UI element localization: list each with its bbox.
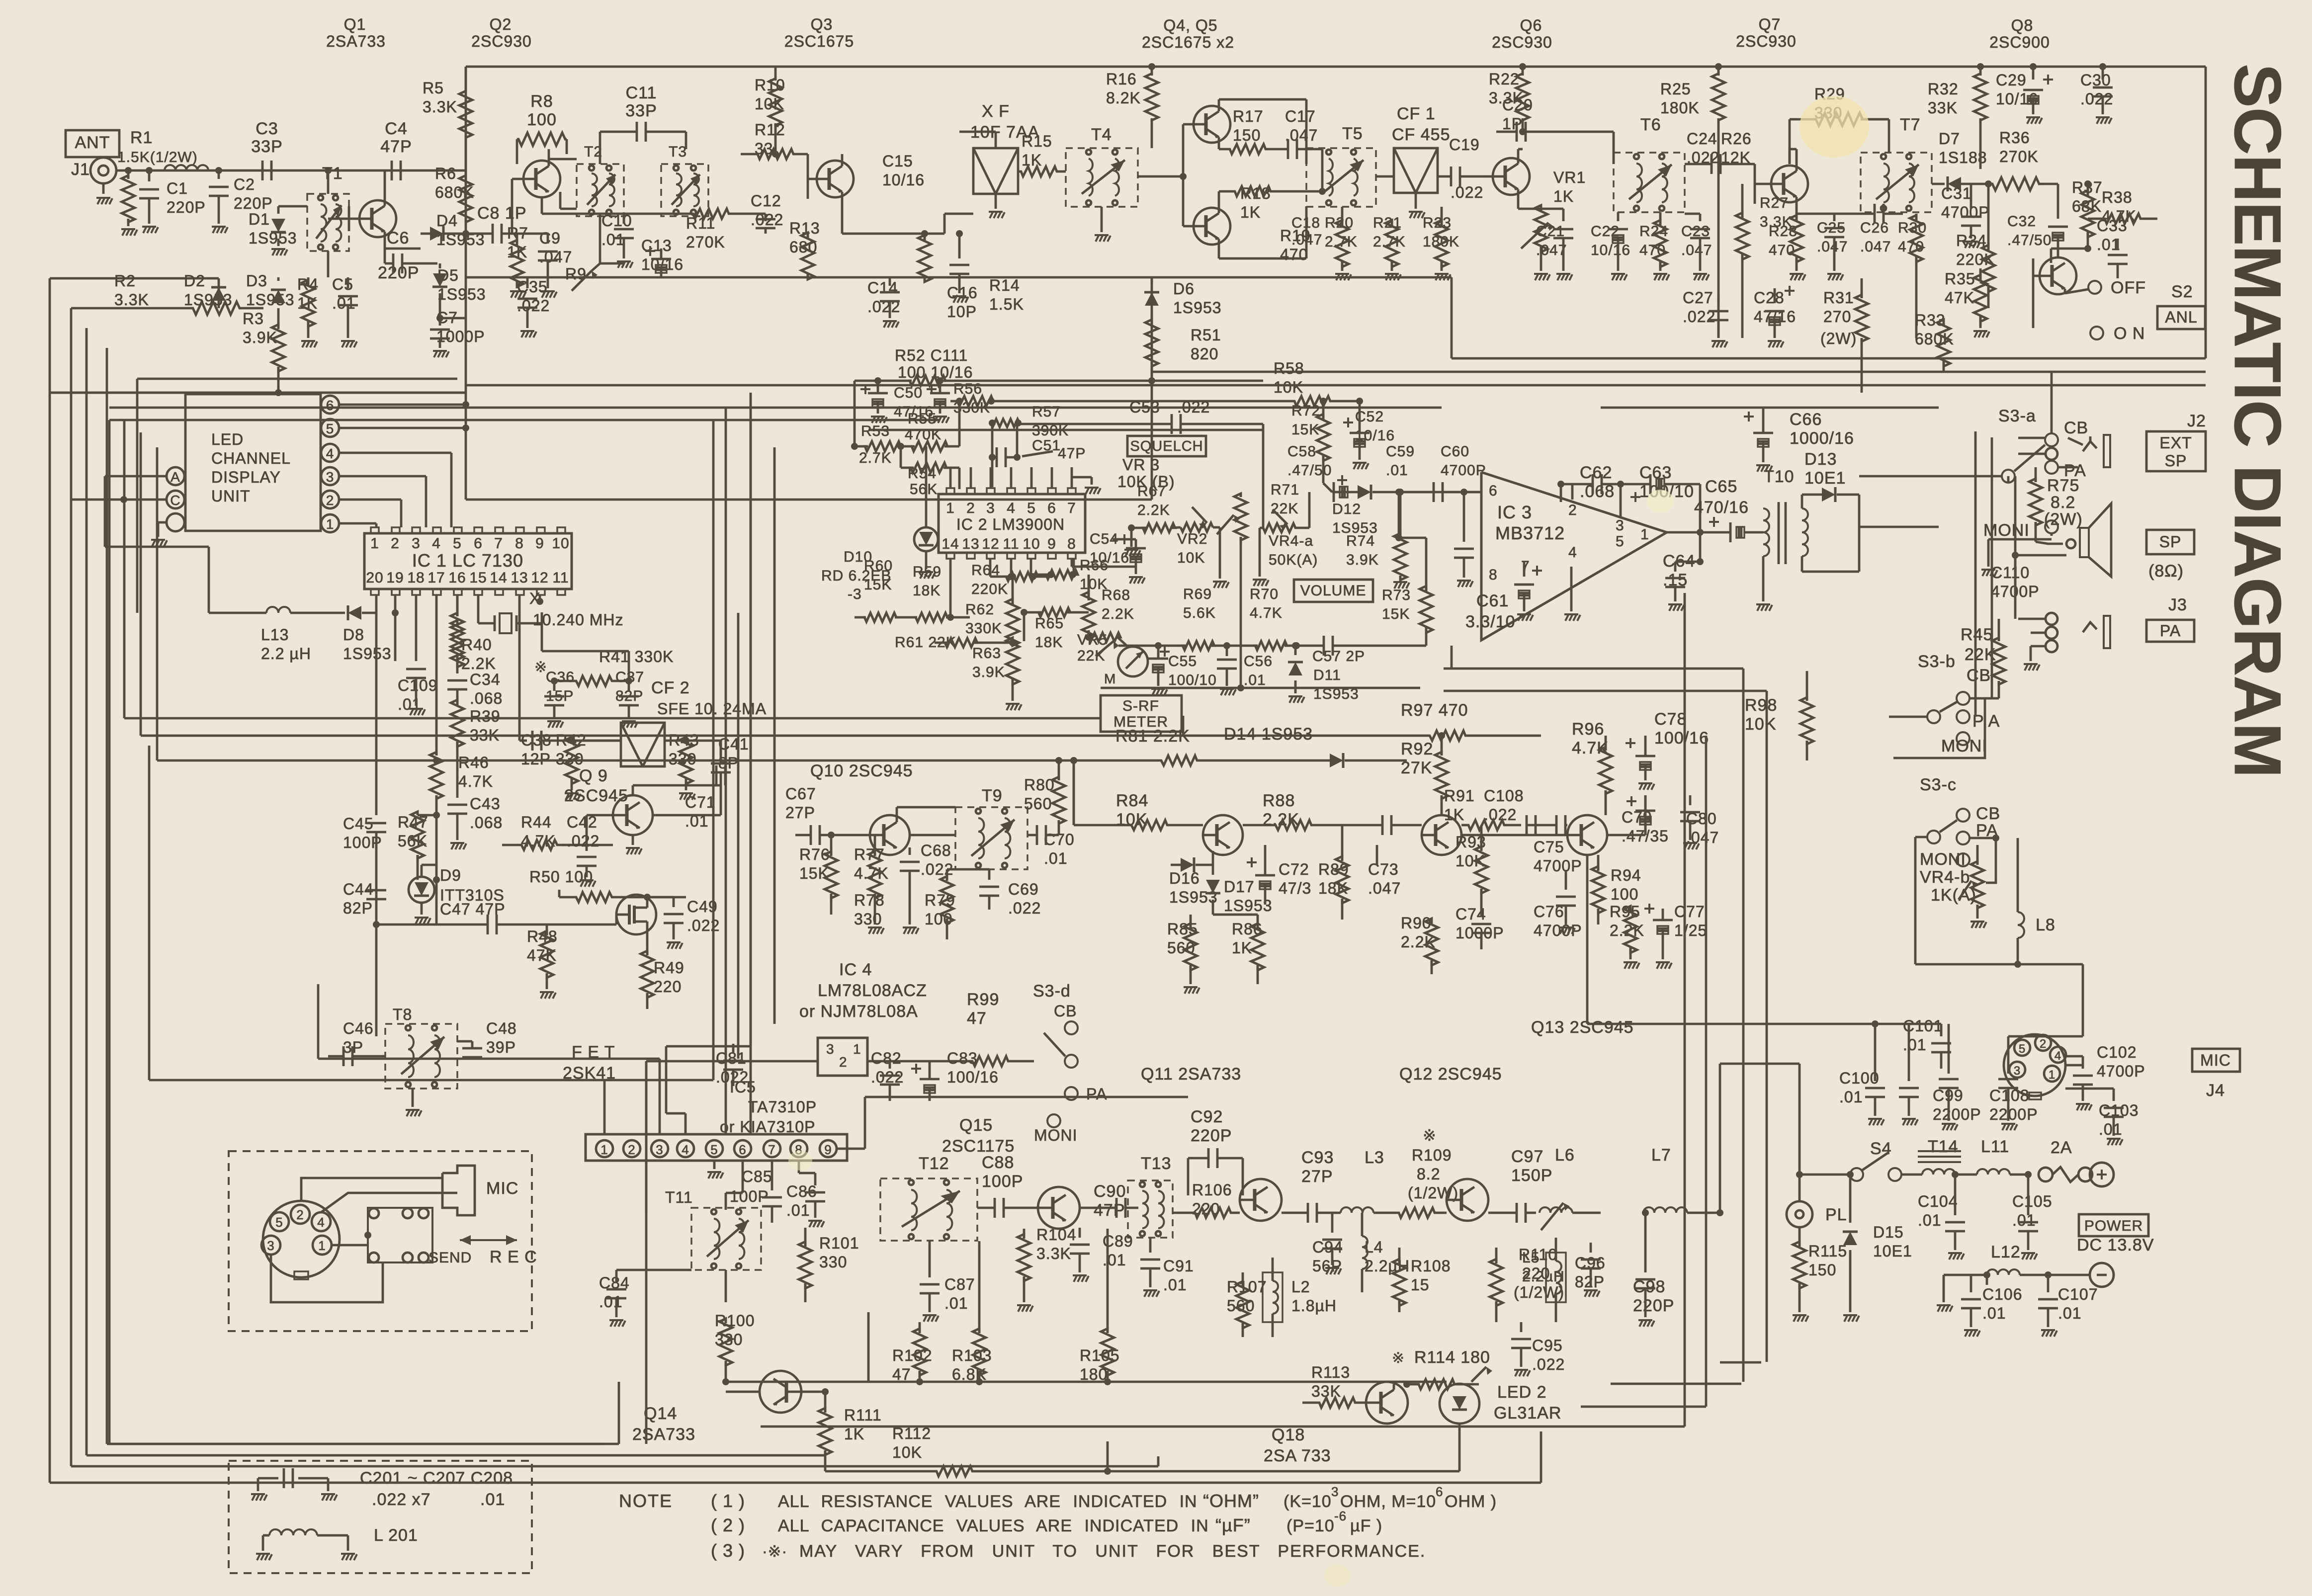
capacitor C105 — [2027, 1175, 2030, 1215]
svg-text:3: 3 — [986, 500, 995, 516]
svg-text:C70: C70 — [1044, 831, 1075, 848]
svg-text:2: 2 — [391, 535, 400, 552]
resistor R99 — [969, 1056, 1012, 1066]
svg-text:C28: C28 — [1754, 289, 1785, 307]
svg-text:47P: 47P — [380, 137, 412, 156]
resistor R115 — [1793, 1242, 1806, 1288]
svg-text:15K: 15K — [1382, 606, 1410, 622]
svg-text:C88: C88 — [982, 1153, 1014, 1172]
resistor R104 — [1018, 1234, 1030, 1281]
svg-text:L11: L11 — [1981, 1137, 2009, 1156]
resistor R3 — [277, 318, 280, 326]
capacitor C81 — [732, 1044, 735, 1054]
switch S3-a com — [2002, 470, 2015, 483]
svg-text:IC5: IC5 — [730, 1078, 756, 1096]
capacitor C17 — [1287, 139, 1289, 159]
svg-text:R114 180: R114 180 — [1414, 1348, 1490, 1367]
resistor R35 — [1974, 275, 1987, 322]
inductor L12 — [1987, 1269, 2020, 1275]
svg-text:C50: C50 — [894, 385, 923, 401]
svg-text:3.9K: 3.9K — [243, 329, 277, 346]
switch S3-b PA — [1957, 710, 1969, 723]
svg-text:C5: C5 — [332, 275, 353, 293]
resistor R90 — [1425, 919, 1438, 965]
svg-text:C69: C69 — [1008, 880, 1039, 898]
resistor R7 — [516, 234, 518, 244]
svg-text:Q 9: Q 9 — [579, 766, 608, 785]
switch S3-d CB — [1065, 1021, 1078, 1034]
svg-text:DC 13.8V: DC 13.8V — [2077, 1236, 2154, 1255]
capacitor C10 — [623, 214, 625, 224]
resistor R88 — [1273, 820, 1315, 830]
pot VR1 — [1517, 189, 1520, 209]
svg-text:L6: L6 — [1555, 1146, 1575, 1165]
svg-text:6: 6 — [1436, 1484, 1443, 1499]
wire q9 base — [562, 844, 587, 846]
svg-text:R55: R55 — [908, 411, 937, 427]
svg-text:C78: C78 — [1654, 710, 1687, 729]
switch送 contacts — [368, 1208, 432, 1262]
svg-text:C91: C91 — [1163, 1257, 1194, 1275]
svg-text:C95: C95 — [1532, 1337, 1563, 1354]
svg-text:VR2: VR2 — [1177, 531, 1207, 547]
svg-text:220P: 220P — [1191, 1126, 1232, 1145]
svg-text:.022: .022 — [1532, 1355, 1565, 1373]
svg-text:※: ※ — [1423, 1126, 1437, 1144]
capacitor C50 — [868, 392, 888, 395]
svg-text:9: 9 — [824, 1142, 832, 1157]
svg-text:2SA733: 2SA733 — [326, 32, 386, 50]
wire bus bottom1 — [50, 1482, 1541, 1484]
svg-text:R E C: R E C — [490, 1248, 537, 1266]
svg-text:R25: R25 — [1660, 80, 1691, 98]
wire Q2 collector — [548, 149, 550, 166]
svg-text:47P: 47P — [1058, 445, 1086, 462]
svg-text:S3-c: S3-c — [1920, 775, 1957, 794]
svg-text:12P: 12P — [521, 750, 551, 768]
filter XF — [973, 148, 1018, 194]
svg-text:2SA733: 2SA733 — [632, 1425, 695, 1444]
svg-text:C3: C3 — [256, 119, 278, 138]
svg-text:2: 2 — [628, 1142, 635, 1157]
svg-text:※: ※ — [534, 659, 547, 675]
svg-text:47: 47 — [967, 1009, 987, 1028]
inset mic dashed box — [229, 1151, 532, 1331]
pot R9 arrow — [572, 271, 592, 291]
svg-text:R67: R67 — [1137, 483, 1166, 500]
resistor R13v — [801, 233, 814, 279]
diode D5 — [439, 263, 441, 268]
capacitor C21 — [1562, 209, 1565, 221]
capacitor C97 — [1516, 1203, 1518, 1223]
svg-text:100P: 100P — [982, 1172, 1023, 1191]
svg-text:R78: R78 — [854, 891, 885, 909]
capacitor C98 — [1644, 1213, 1647, 1272]
svg-text:4: 4 — [1568, 544, 1577, 561]
svg-text:T1: T1 — [322, 164, 343, 183]
resistor R36 — [1992, 177, 2039, 190]
wire xf top — [995, 132, 997, 148]
capacitor C8b — [511, 179, 514, 234]
svg-text:R73: R73 — [1382, 587, 1411, 603]
capacitor C104 — [1954, 1175, 1957, 1215]
capacitor C63 — [1649, 474, 1652, 494]
svg-text:C87: C87 — [944, 1275, 975, 1293]
svg-text:Q14: Q14 — [644, 1404, 677, 1423]
svg-text:1000/16: 1000/16 — [1790, 429, 1854, 448]
wire led p6 — [339, 404, 466, 406]
svg-text:MONI: MONI — [1034, 1126, 1078, 1144]
capacitor C95 — [1520, 1322, 1523, 1332]
wire anl emitter drop — [2064, 289, 2066, 293]
switch S3-a PA — [2045, 461, 2058, 474]
wire Q2 bias — [541, 197, 543, 214]
resistor R62 — [1006, 599, 1019, 646]
transformer T10 secondary — [1802, 508, 1808, 556]
capacitor C94 — [1331, 1213, 1334, 1233]
svg-text:C34: C34 — [470, 671, 501, 688]
svg-text:.01: .01 — [1386, 462, 1408, 479]
svg-text:R15: R15 — [1022, 132, 1052, 150]
ground C29 — [2026, 116, 2040, 118]
capacitor C11 — [636, 122, 638, 142]
wire R8 frame — [516, 139, 518, 164]
svg-text:.022: .022 — [1484, 806, 1517, 824]
capacitor C103 — [2113, 1089, 2115, 1101]
svg-text:.01: .01 — [2012, 1211, 2036, 1229]
svg-text:11: 11 — [552, 570, 569, 586]
wire ic3 out — [1667, 531, 1700, 534]
resistor R114 — [1417, 1379, 1456, 1389]
svg-text:R3: R3 — [243, 310, 264, 328]
capacitor C44 — [366, 889, 386, 892]
box LED channel display unit — [185, 394, 321, 531]
svg-text:2: 2 — [839, 1054, 848, 1070]
wire q14 rail — [726, 1391, 760, 1393]
transformer T14 — [1922, 1169, 1955, 1175]
wire Q6 col — [1517, 149, 1520, 164]
capacitor C91 — [1149, 1238, 1152, 1253]
svg-text:S3-a: S3-a — [1998, 407, 2036, 425]
svg-text:CHANNEL: CHANNEL — [211, 449, 291, 467]
svg-text:D6: D6 — [1173, 280, 1195, 298]
resistor R14 — [924, 277, 926, 278]
svg-text:10/16: 10/16 — [1591, 242, 1630, 258]
wire t8 node — [375, 1024, 378, 1036]
svg-text:R48: R48 — [527, 927, 558, 945]
wire ic2 pin8 drop — [1071, 558, 1073, 567]
ground VR1 — [1534, 273, 1548, 275]
capacitor C36 — [553, 681, 556, 691]
svg-text:.01: .01 — [1163, 1276, 1187, 1294]
svg-text:100/16: 100/16 — [947, 1068, 999, 1086]
diode D16 — [1181, 857, 1194, 872]
svg-text:1.8µH: 1.8µH — [1291, 1297, 1337, 1315]
svg-text:C90: C90 — [1094, 1182, 1126, 1201]
switch S3-c PA — [1957, 832, 1969, 844]
capacitor C14v — [889, 277, 891, 286]
svg-text:VR4-a: VR4-a — [1269, 533, 1313, 549]
resistor R55 — [912, 441, 947, 451]
svg-text:14: 14 — [942, 536, 959, 552]
resistor R30 — [1910, 215, 1923, 262]
transformer T6 — [1614, 153, 1685, 212]
transformer T4 — [1066, 148, 1138, 207]
inductor L7 — [1643, 1207, 1687, 1213]
diode D14 — [1330, 753, 1343, 768]
wire Q1 base — [328, 218, 349, 220]
svg-text:R84: R84 — [1116, 791, 1148, 810]
svg-text:Q1: Q1 — [344, 15, 366, 33]
junction R16 — [1148, 63, 1155, 70]
svg-text:R58: R58 — [1274, 359, 1304, 377]
diode D2 — [211, 287, 226, 301]
wire s3a cb up — [2051, 372, 2053, 433]
svg-text:.022: .022 — [567, 832, 599, 850]
wire rail y865 R58 — [868, 429, 1263, 431]
capacitor C31 — [1970, 184, 1972, 209]
ground C43 — [450, 842, 464, 844]
svg-text:R108: R108 — [1411, 1257, 1451, 1275]
svg-text:C36: C36 — [546, 669, 575, 685]
svg-text:5: 5 — [2019, 1042, 2026, 1056]
svg-text:220K: 220K — [971, 581, 1008, 597]
diode D15 — [1849, 1175, 1852, 1223]
wire t10 prim bottom — [1762, 556, 1765, 601]
svg-text:J2: J2 — [2187, 412, 2206, 430]
capacitor C30 — [2102, 67, 2104, 80]
svg-text:6: 6 — [739, 1142, 746, 1157]
diode D6 — [1151, 277, 1153, 283]
wire R29-T7 — [1888, 119, 1890, 153]
wire mic pin4 — [2065, 1055, 2083, 1058]
svg-text:.047: .047 — [1860, 239, 1891, 255]
inductor L201 sym — [269, 1529, 317, 1535]
wire Q4Q5 base — [1182, 124, 1185, 226]
ground R35 — [1973, 330, 1987, 332]
svg-text:5: 5 — [453, 535, 462, 552]
wire ant branch — [50, 277, 219, 280]
capacitor C106b — [1970, 1275, 1972, 1292]
svg-text:3: 3 — [326, 469, 335, 485]
svg-text:C105: C105 — [2012, 1192, 2053, 1210]
IC IC4 box — [818, 1038, 867, 1076]
transformer T1 — [307, 194, 349, 251]
svg-text:50K(A): 50K(A) — [1269, 552, 1318, 568]
svg-text:C33: C33 — [2097, 217, 2128, 235]
wire q14 emitter — [801, 1391, 825, 1393]
IC IC2 LM3900N box — [939, 494, 1085, 553]
pin C led — [167, 491, 184, 508]
wire drop at 2317 — [1151, 277, 1153, 500]
transistor Q9 — [613, 795, 653, 835]
svg-text:-3: -3 — [848, 586, 862, 602]
svg-text:270K: 270K — [1999, 148, 2039, 166]
wire q18 col — [1393, 1384, 1395, 1390]
capacitor C100 — [1874, 1069, 1877, 1081]
svg-text:2SC930: 2SC930 — [1492, 33, 1552, 51]
svg-text:18K: 18K — [1318, 879, 1348, 897]
capacitor C56 — [1226, 646, 1228, 656]
svg-text:R62: R62 — [965, 601, 994, 618]
svg-text:R75: R75 — [2047, 476, 2079, 495]
wire Q6-T6 — [1551, 131, 1614, 133]
svg-text:7: 7 — [494, 535, 503, 552]
svg-text:R71: R71 — [1271, 482, 1299, 498]
svg-text:R63: R63 — [972, 645, 1001, 662]
capacitor C99 — [1948, 1069, 1950, 1074]
svg-text:150: 150 — [1808, 1261, 1836, 1279]
resistor R94 — [1592, 866, 1605, 913]
wire tx feed top — [867, 1312, 870, 1382]
svg-text:17: 17 — [428, 570, 445, 586]
svg-text:9: 9 — [535, 535, 544, 552]
inductor L8 — [2018, 912, 2024, 938]
svg-text:C97: C97 — [1511, 1147, 1543, 1166]
wire srf rails — [108, 420, 111, 1444]
wire inner bottom rail right half — [1452, 357, 2206, 360]
resistor R105 — [1101, 1329, 1114, 1375]
wire volume join — [1073, 760, 1075, 825]
svg-text:R99: R99 — [967, 990, 999, 1009]
LED LED2 — [1440, 1384, 1479, 1424]
wire D1 tap — [278, 205, 307, 208]
inductor L4 — [1362, 1236, 1368, 1269]
wire led top — [137, 378, 457, 380]
capacitor C41 — [720, 741, 722, 756]
svg-text:330K: 330K — [965, 620, 1002, 637]
filter CF1 — [1394, 148, 1438, 193]
ground led — [158, 521, 167, 524]
ground ic2 pin7top — [1072, 476, 1092, 479]
resistor R102 — [913, 1329, 926, 1375]
capacitor C84 — [615, 1270, 618, 1282]
transistor Q6 — [1493, 158, 1530, 195]
svg-text:5: 5 — [1616, 533, 1625, 550]
svg-text:10K: 10K — [1177, 550, 1205, 566]
svg-text:ALL CAPACITANCE VALUES ARE IND: ALL CAPACITANCE VALUES ARE INDICATED IN — [778, 1516, 1209, 1535]
wire Q5 out — [1218, 239, 1220, 258]
svg-text:C201 ~ C207 C208: C201 ~ C207 C208 — [360, 1469, 513, 1488]
wire lower bus2 — [70, 308, 73, 1466]
svg-text:D17: D17 — [1224, 878, 1255, 896]
inductor L2 — [1273, 1281, 1278, 1314]
wire minus left — [1944, 1274, 1969, 1276]
capacitor C47 — [487, 915, 489, 934]
resistor R100 — [719, 1319, 732, 1365]
transistor Q12 — [1422, 815, 1461, 855]
resistor R43 — [680, 737, 692, 784]
capacitor C102 — [2082, 1065, 2084, 1069]
resistor R40v — [451, 613, 464, 660]
svg-text:R59: R59 — [913, 564, 942, 580]
svg-text:R65: R65 — [1035, 615, 1064, 632]
svg-text:10K: 10K — [1456, 852, 1485, 870]
ground ic3 pin4 — [1570, 567, 1573, 611]
svg-text:(P=10: (P=10 — [1286, 1516, 1335, 1535]
svg-text:X F: X F — [982, 102, 1010, 121]
capacitor C77 — [1653, 919, 1673, 922]
svg-text:D4: D4 — [436, 212, 458, 230]
svg-text:27K: 27K — [1401, 758, 1433, 777]
svg-text:R5: R5 — [423, 79, 444, 97]
resistor R60 — [864, 613, 896, 622]
wire ic5 pin risers — [603, 1080, 606, 1134]
capacitor C12 — [756, 218, 775, 221]
pot VR4a R71 — [1260, 523, 1299, 532]
capacitor C4 — [391, 161, 393, 180]
inductor L3 — [1341, 1207, 1373, 1213]
transformer T2 — [577, 164, 624, 216]
svg-text:C107: C107 — [2058, 1285, 2098, 1303]
svg-text:MB3712: MB3712 — [1495, 523, 1565, 543]
wire mic rail — [1720, 1023, 1941, 1025]
svg-text:R52 C111: R52 C111 — [895, 346, 968, 364]
wire R29 left — [1789, 119, 1791, 164]
paper stain 1 — [1799, 96, 1869, 158]
svg-text:R10: R10 — [755, 76, 785, 94]
svg-text:R35: R35 — [1945, 270, 1975, 288]
svg-text:R12: R12 — [755, 121, 785, 139]
resistor R61 — [945, 638, 977, 647]
ground C35 — [520, 330, 534, 332]
node SP box — [2146, 530, 2194, 554]
capacitor C74 — [1480, 910, 1483, 917]
capacitor C5 — [347, 277, 349, 288]
wire jack j2 leads — [2018, 437, 2046, 439]
transistor Q7 — [1771, 166, 1808, 202]
svg-text:C92: C92 — [1191, 1107, 1223, 1126]
svg-text:16: 16 — [448, 570, 466, 586]
resistor R48 — [540, 931, 553, 978]
svg-text:4: 4 — [317, 1215, 325, 1230]
diode D9 zener — [409, 877, 434, 903]
resistor R74 — [1394, 533, 1407, 580]
node MIC box — [2192, 1049, 2240, 1072]
svg-text:C18: C18 — [1291, 215, 1320, 231]
resistor R63v — [1006, 638, 1019, 684]
ground Q9 — [632, 835, 634, 845]
capacitor C28 — [1774, 288, 1776, 303]
svg-text:R113: R113 — [1311, 1363, 1350, 1381]
transistor Q13 — [1567, 815, 1607, 855]
switch S3-a MONI — [2045, 520, 2058, 533]
svg-text:J3: J3 — [2168, 595, 2187, 614]
svg-text:47K: 47K — [1945, 289, 1974, 307]
svg-text:R16: R16 — [1106, 70, 1137, 88]
svg-text:O N: O N — [2114, 324, 2145, 343]
svg-text:220K: 220K — [1956, 251, 1995, 268]
svg-text:R45: R45 — [1961, 625, 1993, 644]
arrow send-rec — [460, 1239, 517, 1241]
svg-text:C85: C85 — [742, 1168, 772, 1185]
wire right margin v2 — [1991, 437, 1993, 698]
svg-text:L7: L7 — [1651, 1146, 1671, 1165]
wire fet gate — [547, 924, 616, 926]
crystal X — [494, 615, 496, 631]
svg-text:VR4-b: VR4-b — [1920, 868, 1970, 887]
svg-text:R68: R68 — [1102, 587, 1130, 603]
svg-text:4: 4 — [432, 535, 441, 552]
IC IC1 LC7130 box — [364, 533, 572, 589]
ground R1 — [121, 228, 135, 230]
transistor Q14 — [760, 1371, 801, 1413]
capacitor C79 — [1635, 810, 1655, 812]
capacitor C96 — [1590, 1243, 1592, 1253]
capacitor C108b — [1526, 815, 1528, 835]
svg-text:C41: C41 — [718, 735, 749, 753]
svg-text:R66: R66 — [1080, 557, 1109, 574]
